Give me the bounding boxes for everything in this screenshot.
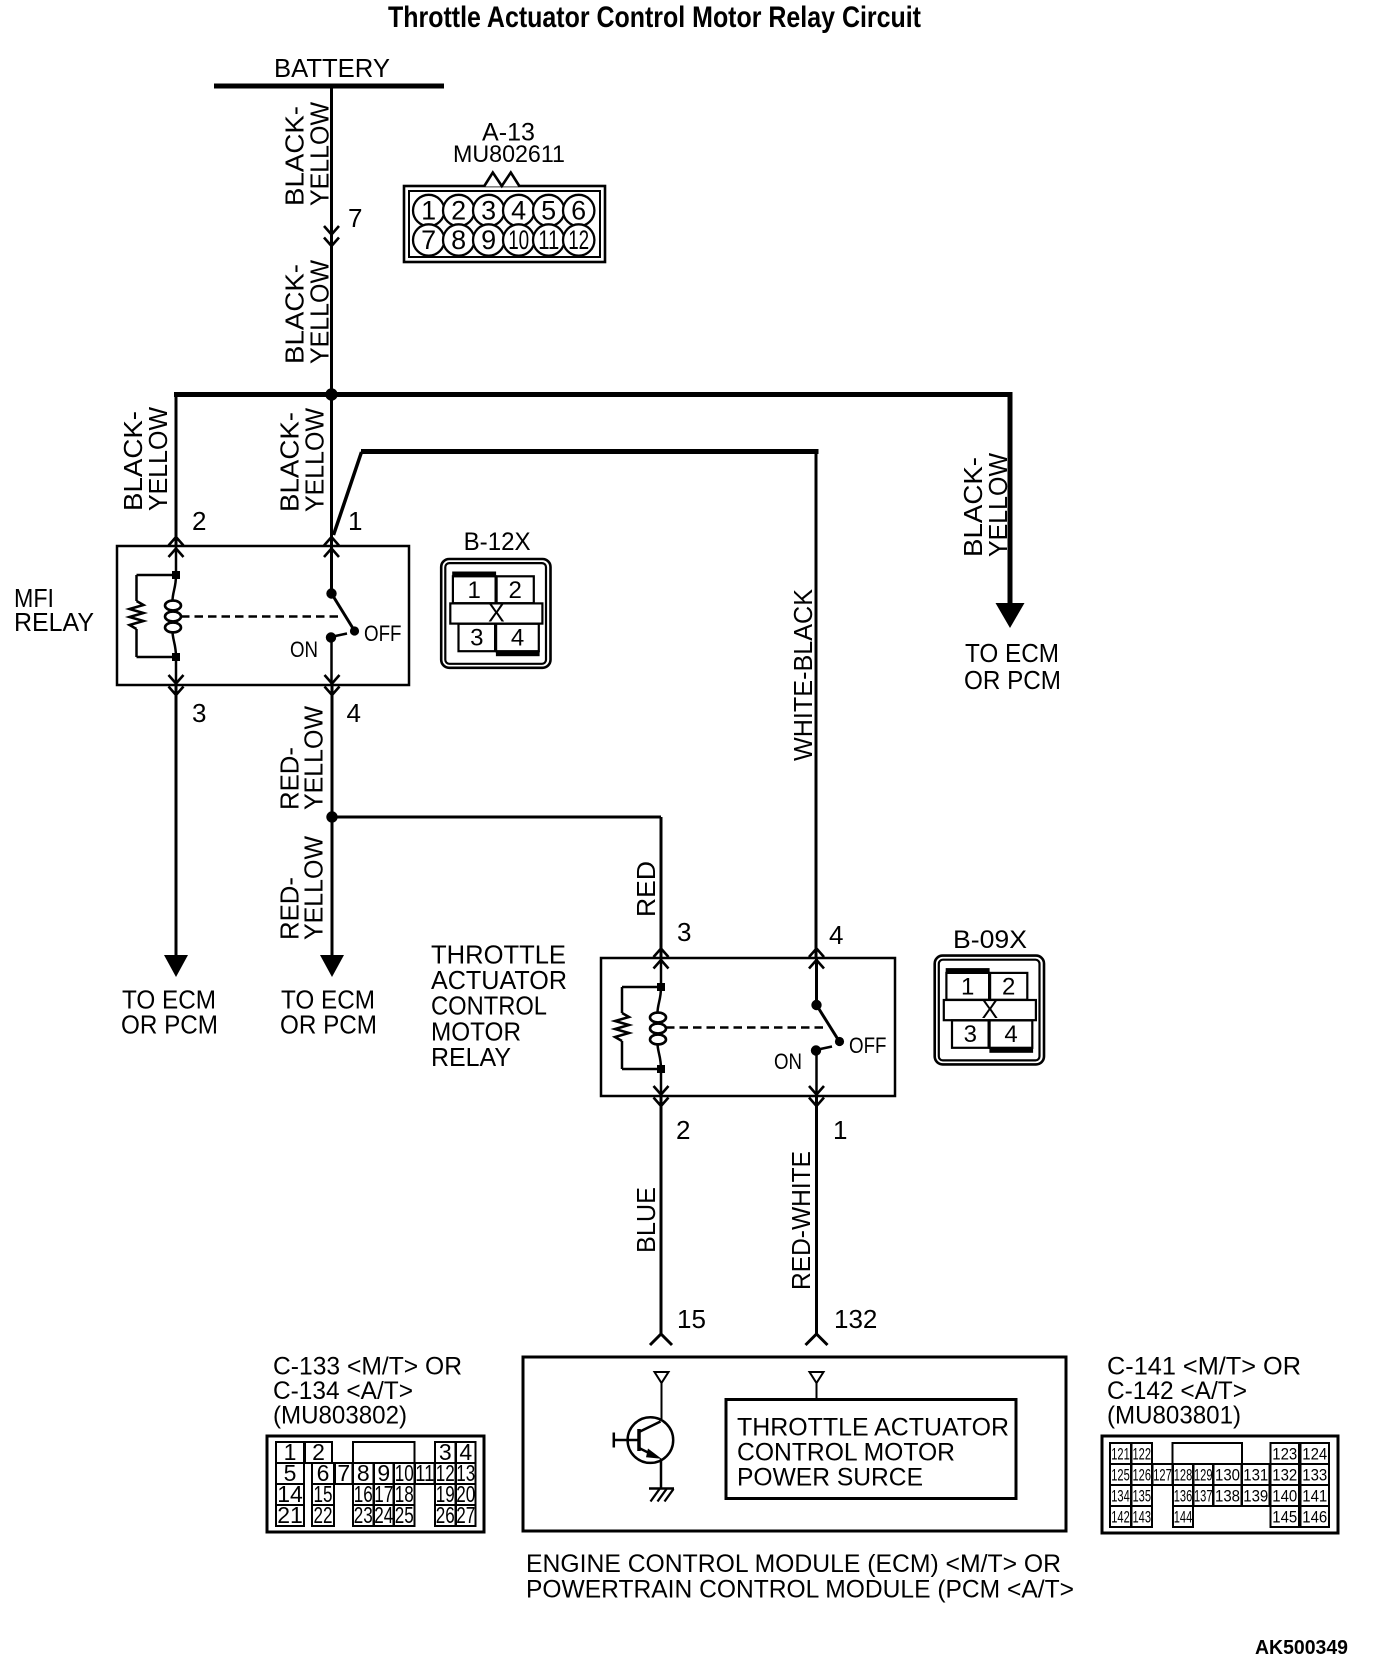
svg-text:131: 131 (1243, 1466, 1268, 1485)
svg-text:BLUE: BLUE (631, 1187, 661, 1253)
svg-text:3: 3 (470, 625, 483, 652)
battery B+ (214, 53, 444, 86)
svg-text:122: 122 (1133, 1445, 1152, 1464)
svg-text:AK500349: AK500349 (1255, 1637, 1348, 1659)
wire main bus horizontal (174, 392, 1013, 397)
wire MFI pin 4 RED-YELLOW down (331, 685, 334, 956)
label TO ECM OR PCM (pin 4) (280, 985, 377, 1040)
MFI relay coil branch wire (175, 546, 178, 685)
svg-text:145: 145 (1272, 1508, 1297, 1527)
pin number 4 (MFI) (347, 698, 361, 728)
pin number 1 (MFI) (348, 506, 362, 536)
svg-text:132: 132 (1272, 1466, 1297, 1485)
svg-text:22: 22 (314, 1502, 333, 1528)
transistor Q1 (614, 1417, 673, 1489)
wire right branch BLACK-YELLOW to ECM (1008, 392, 1013, 605)
svg-text:X: X (982, 996, 999, 1024)
svg-text:ON: ON (290, 637, 318, 662)
svg-text:X: X (488, 600, 505, 628)
svg-text:6: 6 (571, 196, 586, 226)
pin number 7 (348, 203, 362, 233)
node (coil top) (172, 571, 180, 579)
svg-text:3: 3 (192, 698, 206, 728)
dashed actuation line (MFI) (181, 615, 341, 618)
label WHITE-BLACK (788, 588, 818, 761)
svg-text:134: 134 (1111, 1487, 1130, 1506)
connector A-13 pin 7 crossing (324, 226, 339, 246)
svg-text:RED-WHITE: RED-WHITE (786, 1151, 816, 1290)
svg-text:OR PCM: OR PCM (280, 1010, 377, 1040)
svg-text:23: 23 (354, 1502, 373, 1528)
throttle actuator control motor relay box (601, 958, 895, 1096)
svg-text:B-12X: B-12X (464, 528, 531, 556)
svg-text:OR PCM: OR PCM (964, 665, 1061, 695)
node (coil bottom) (172, 653, 180, 661)
svg-text:YELLOW: YELLOW (305, 102, 335, 206)
label connector C-133/C-134 (273, 1353, 462, 1430)
label RED-WHITE (786, 1151, 816, 1290)
wire BLUE to ECM pin 15 (650, 1096, 672, 1345)
svg-text:RED: RED (631, 861, 661, 917)
connector chevrons MFI pin 2 (169, 537, 184, 557)
connector B-12X (441, 528, 550, 668)
node (coil top) (657, 983, 665, 991)
connector chevrons throttle pin 3 (654, 949, 669, 969)
node (coil bottom) (657, 1065, 665, 1073)
svg-text:RELAY: RELAY (14, 607, 94, 637)
svg-text:RELAY: RELAY (431, 1042, 511, 1072)
svg-text:4: 4 (511, 625, 524, 652)
label BLACK-YELLOW (MFI pin 2) (118, 407, 173, 511)
svg-text:5: 5 (541, 196, 556, 226)
svg-text:1: 1 (421, 196, 436, 226)
wire branch to throttle relay pin 4 (WHITE-BLACK riser) (334, 449, 819, 958)
svg-text:121: 121 (1111, 1445, 1130, 1464)
svg-text:7: 7 (421, 225, 436, 255)
node: main distribution junction (325, 388, 337, 400)
label THROTTLE ACTUATOR CONTROL MOTOR RELAY (431, 940, 567, 1072)
throttle relay coil branch wire (660, 958, 663, 1096)
MFI relay switch (326, 546, 359, 685)
svg-text:YELLOW: YELLOW (299, 706, 329, 810)
svg-text:OFF: OFF (364, 621, 402, 646)
svg-text:2: 2 (676, 1115, 690, 1145)
svg-text:(MU803802): (MU803802) (273, 1402, 407, 1430)
svg-text:B-09X: B-09X (953, 926, 1027, 954)
node RED-YELLOW junction (326, 811, 337, 822)
svg-text:MU802611: MU802611 (453, 141, 565, 168)
svg-text:4: 4 (829, 920, 843, 950)
throttle actuator control motor power source block (726, 1400, 1016, 1499)
svg-text:4: 4 (511, 196, 526, 226)
wire RED to throttle relay pin 3 (332, 817, 661, 958)
svg-text:9: 9 (481, 225, 496, 255)
wire left branch to MFI relay pin 2 (175, 392, 178, 546)
svg-text:3: 3 (964, 1021, 977, 1048)
svg-text:3: 3 (481, 196, 496, 226)
connector chevrons throttle pin 2 (654, 1086, 669, 1106)
svg-text:25: 25 (395, 1502, 414, 1528)
ECM / PCM module box (523, 1357, 1066, 1531)
svg-text:7: 7 (348, 203, 362, 233)
svg-text:144: 144 (1174, 1508, 1193, 1527)
svg-text:TO ECM: TO ECM (965, 638, 1059, 668)
label BLACK-YELLOW (right branch) (958, 453, 1013, 557)
svg-text:135: 135 (1133, 1487, 1152, 1506)
label OFF (throttle) (849, 1033, 887, 1058)
ground (chassis) (649, 1489, 674, 1502)
svg-text:141: 141 (1302, 1487, 1327, 1506)
svg-text:7: 7 (337, 1460, 350, 1486)
svg-text:124: 124 (1302, 1445, 1327, 1464)
svg-text:4: 4 (347, 698, 361, 728)
throttle relay resistor (parallel) (615, 987, 661, 1069)
label TO ECM OR PCM (pin 3) (121, 985, 218, 1040)
drawing number AK500349 (1255, 1637, 1348, 1659)
wire RED-WHITE to ECM pin 132 (806, 1096, 828, 1345)
svg-text:YELLOW: YELLOW (983, 453, 1013, 557)
label TO ECM OR PCM (right) (964, 638, 1061, 695)
svg-text:YELLOW: YELLOW (299, 836, 329, 940)
wire MFI pin 3 to ECM (175, 685, 178, 956)
svg-text:10: 10 (508, 225, 529, 255)
pin number 15 (677, 1304, 706, 1334)
svg-text:4: 4 (1004, 1021, 1017, 1048)
svg-text:130: 130 (1215, 1466, 1240, 1485)
svg-text:POWER SURCE: POWER SURCE (737, 1464, 923, 1492)
svg-text:21: 21 (277, 1502, 303, 1528)
svg-text:2: 2 (1002, 974, 1015, 1001)
svg-text:136: 136 (1174, 1487, 1193, 1506)
svg-text:2: 2 (192, 506, 206, 536)
svg-text:143: 143 (1133, 1508, 1152, 1527)
svg-text:THROTTLE ACTUATOR: THROTTLE ACTUATOR (737, 1414, 1009, 1442)
svg-text:132: 132 (834, 1304, 877, 1334)
svg-text:125: 125 (1111, 1466, 1130, 1485)
throttle relay switch (811, 958, 844, 1096)
connector A-13 MU802611 (404, 119, 605, 263)
connector grid C-133/C-134 (MU803802) (267, 1436, 484, 1532)
svg-text:Throttle Actuator Control Moto: Throttle Actuator Control Motor Relay Ci… (388, 1, 921, 34)
wire center branch to MFI relay pin 1 (330, 395, 333, 546)
svg-text:POWERTRAIN CONTROL MODULE (PCM: POWERTRAIN CONTROL MODULE (PCM <A/T> (526, 1576, 1074, 1604)
svg-text:(MU803801): (MU803801) (1107, 1402, 1241, 1430)
svg-text:138: 138 (1215, 1487, 1240, 1506)
svg-text:1: 1 (961, 974, 974, 1001)
MFI relay resistor (parallel) (130, 575, 177, 657)
label ON (MFI) (290, 637, 318, 662)
label BLACK-YELLOW (below A-13) (280, 260, 335, 364)
dashed actuation line (throttle relay) (666, 1026, 824, 1029)
svg-text:1: 1 (348, 506, 362, 536)
svg-text:126: 126 (1133, 1466, 1152, 1485)
pin number 2 (MFI) (192, 506, 206, 536)
label BLUE (631, 1187, 661, 1253)
svg-text:OFF: OFF (849, 1033, 887, 1058)
svg-text:8: 8 (451, 225, 466, 255)
svg-text:140: 140 (1272, 1487, 1297, 1506)
connector chevrons MFI pin 3 (169, 675, 184, 695)
svg-text:2: 2 (451, 196, 466, 226)
svg-text:YELLOW: YELLOW (143, 407, 173, 511)
svg-text:133: 133 (1302, 1466, 1327, 1485)
svg-text:24: 24 (374, 1502, 393, 1528)
svg-text:YELLOW: YELLOW (305, 260, 335, 364)
arrow to ECM or PCM (pin 3) (164, 955, 188, 977)
label MFI RELAY (14, 583, 94, 637)
pin number 3 (throttle relay) (677, 917, 691, 947)
svg-text:1: 1 (468, 577, 481, 604)
svg-text:128: 128 (1174, 1466, 1193, 1485)
svg-text:137: 137 (1194, 1487, 1213, 1506)
pin number 4 (throttle relay) (829, 920, 843, 950)
pin number 3 (MFI) (192, 698, 206, 728)
svg-text:BATTERY: BATTERY (274, 53, 390, 83)
svg-text:OR PCM: OR PCM (121, 1010, 218, 1040)
throttle relay coil L2 (650, 987, 666, 1069)
svg-text:142: 142 (1111, 1508, 1130, 1527)
svg-text:146: 146 (1302, 1508, 1327, 1527)
internal node triangle (pin 132) (810, 1372, 824, 1400)
label BLACK-YELLOW (MFI pin 1) (275, 408, 330, 512)
svg-text:ON: ON (774, 1049, 802, 1074)
arrow to ECM or PCM (pin 4) (320, 955, 344, 977)
svg-text:11: 11 (538, 225, 559, 255)
svg-text:YELLOW: YELLOW (300, 408, 330, 512)
svg-text:ENGINE CONTROL MODULE (ECM) <M: ENGINE CONTROL MODULE (ECM) <M/T> OR (526, 1550, 1061, 1578)
label RED-YELLOW (above junction) (275, 706, 329, 810)
caption ENGINE CONTROL MODULE (526, 1550, 1074, 1604)
connector chevrons throttle pin 1 (809, 1086, 824, 1106)
svg-text:129: 129 (1194, 1466, 1213, 1485)
MFI relay box (117, 546, 409, 685)
connector chevrons MFI pin 4 (325, 675, 340, 695)
title: Throttle Actuator Control Motor Relay Circuit (388, 1, 921, 34)
label ON (throttle) (774, 1049, 802, 1074)
connector B-09X (935, 926, 1044, 1064)
arrow to ECM or PCM (right) (996, 603, 1025, 628)
svg-text:139: 139 (1243, 1487, 1268, 1506)
svg-text:CONTROL MOTOR: CONTROL MOTOR (737, 1439, 955, 1467)
svg-text:WHITE-BLACK: WHITE-BLACK (788, 588, 818, 761)
MFI relay coil L1 (165, 575, 181, 657)
svg-text:26: 26 (436, 1502, 455, 1528)
label BLACK-YELLOW (battery segment) (280, 102, 335, 206)
svg-text:1: 1 (833, 1115, 847, 1145)
label RED (631, 861, 661, 917)
label connector C-141/C-142 (1107, 1353, 1301, 1430)
svg-text:3: 3 (677, 917, 691, 947)
label RED-YELLOW (below junction) (275, 836, 329, 940)
wire battery feed BLACK-YELLOW (330, 88, 333, 395)
connector chevrons MFI pin 1 (324, 537, 339, 557)
pin number 2 (throttle relay) (676, 1115, 690, 1145)
label OFF (MFI) (364, 621, 402, 646)
pin number 132 (834, 1304, 877, 1334)
svg-text:11: 11 (415, 1460, 434, 1486)
connector grid C-141/C-142 (MU803801) (1102, 1436, 1338, 1533)
svg-text:123: 123 (1272, 1445, 1297, 1464)
internal node triangle (pin 15) (655, 1372, 669, 1419)
svg-text:2: 2 (509, 577, 522, 604)
svg-text:15: 15 (677, 1304, 706, 1334)
svg-text:27: 27 (456, 1502, 475, 1528)
connector chevrons throttle pin 4 (809, 949, 824, 969)
pin number 1 (throttle relay) (833, 1115, 847, 1145)
svg-text:12: 12 (568, 225, 589, 255)
svg-text:127: 127 (1153, 1466, 1172, 1485)
